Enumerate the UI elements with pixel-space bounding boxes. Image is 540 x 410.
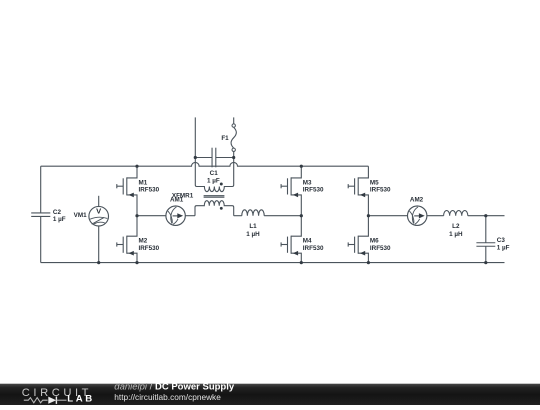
wire left rail lower segment xyxy=(40,216,42,262)
node M3/M4 output xyxy=(300,214,303,217)
wire C1 node right xyxy=(216,157,234,159)
wire L1 to M3/M4 node xyxy=(264,215,301,217)
node VM1 bottom xyxy=(97,261,100,264)
transistor M2 xyxy=(117,216,160,263)
transformer XFMR1 secondary phase dot xyxy=(220,207,223,210)
node M3 drain xyxy=(300,165,303,168)
svg-text:1 µF: 1 µF xyxy=(497,244,510,251)
node C3 top xyxy=(484,214,487,217)
inductor L2 xyxy=(444,210,468,237)
svg-text:C1: C1 xyxy=(210,170,219,177)
wire input stub left xyxy=(194,117,196,157)
transistor M6 xyxy=(348,216,391,263)
wire left rail upper segment xyxy=(40,166,42,213)
node M1/M2 output xyxy=(135,214,138,217)
wire AM1 to transformer secondary left xyxy=(185,215,195,217)
svg-text:IRF530: IRF530 xyxy=(370,187,391,194)
svg-text:M5: M5 xyxy=(370,179,379,186)
voltmeter VM1 xyxy=(74,196,109,263)
svg-text:1 µH: 1 µH xyxy=(449,231,463,238)
node M6 source xyxy=(367,261,370,264)
node M1 drain xyxy=(135,165,138,168)
CircuitLab logo text CIRCUIT xyxy=(22,387,92,399)
capacitor C3 xyxy=(476,216,509,263)
footer bar xyxy=(0,384,540,405)
wire transformer secondary right to L1 xyxy=(234,215,242,217)
svg-text:XFMR1: XFMR1 xyxy=(172,193,194,200)
wire C1 node left xyxy=(195,157,212,159)
node M4 source xyxy=(300,261,303,264)
svg-text:M1: M1 xyxy=(139,179,148,186)
wire AM2 to L2 xyxy=(427,215,444,217)
svg-text:M4: M4 xyxy=(303,237,312,244)
footer title danielpi / DC Power Supply xyxy=(114,382,235,393)
svg-text:1 µF: 1 µF xyxy=(53,216,66,223)
svg-text:IRF530: IRF530 xyxy=(303,245,324,252)
svg-text:M3: M3 xyxy=(303,179,312,186)
svg-text:1 µF: 1 µF xyxy=(207,178,220,185)
svg-text:C2: C2 xyxy=(53,209,62,216)
transformer XFMR1 label xyxy=(172,193,194,200)
svg-text:LAB: LAB xyxy=(67,393,95,404)
wire mid output M1/M2 to AM1 xyxy=(137,215,166,217)
inductor L1 xyxy=(242,210,264,238)
CircuitLab logo text LAB xyxy=(67,393,95,404)
svg-text:F1: F1 xyxy=(221,135,229,142)
fuse F1 xyxy=(221,117,236,157)
transformer XFMR1 primary phase dot xyxy=(220,183,223,186)
svg-text:IRF530: IRF530 xyxy=(139,245,160,252)
wire top rail with crossover hops xyxy=(41,162,369,166)
svg-text:IRF530: IRF530 xyxy=(303,187,324,194)
svg-text:C3: C3 xyxy=(497,237,506,244)
node M5/M6 output xyxy=(367,214,370,217)
ammeter AM2 xyxy=(408,196,427,225)
wire M5/M6 node to AM2 xyxy=(368,215,407,217)
svg-text:L1: L1 xyxy=(249,223,257,230)
node C1 left xyxy=(194,156,197,159)
transformer XFMR1 core xyxy=(204,196,225,198)
svg-text:AM2: AM2 xyxy=(410,196,424,203)
svg-text:VM1: VM1 xyxy=(74,212,87,219)
wire bottom rail xyxy=(41,262,505,264)
node C3 bottom xyxy=(484,261,487,264)
ammeter AM1 xyxy=(166,197,185,226)
svg-text:IRF530: IRF530 xyxy=(139,187,160,194)
transistor M5 xyxy=(348,166,391,216)
capacitor C2 xyxy=(31,209,66,223)
capacitor C1 xyxy=(207,148,220,185)
transistor M1 xyxy=(117,166,160,216)
svg-text:L2: L2 xyxy=(452,223,460,230)
node C1 right xyxy=(232,156,235,159)
transformer XFMR1 primary xyxy=(195,158,233,192)
svg-text:1 µH: 1 µH xyxy=(246,231,260,238)
transistor M3 xyxy=(281,166,324,216)
svg-text:M2: M2 xyxy=(139,237,148,244)
svg-text:http://circuitlab.com/cpnewke: http://circuitlab.com/cpnewke xyxy=(114,392,221,402)
svg-text:IRF530: IRF530 xyxy=(370,245,391,252)
CircuitLab logo resistor-diode icon xyxy=(24,397,67,404)
transformer XFMR1 secondary xyxy=(195,201,234,216)
node M2 source xyxy=(135,261,138,264)
wire L2 to right end xyxy=(468,215,505,217)
footer url xyxy=(114,392,221,402)
svg-text:M6: M6 xyxy=(370,237,379,244)
transistor M4 xyxy=(281,216,324,263)
